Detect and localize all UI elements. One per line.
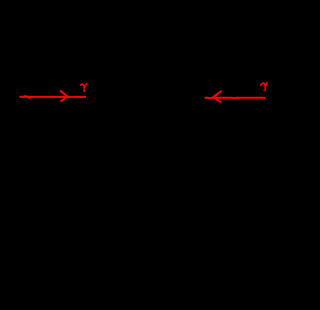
arrowhead: left gamma ray (pointing right): [60, 90, 67, 101]
wire: small ripple bumps near left end of left gamma-ray line: [24, 96, 31, 98]
arrowhead: right gamma ray (pointing left): [213, 91, 222, 103]
wire: left gamma-ray line: [19, 96, 86, 98]
label gamma left: [81, 84, 87, 92]
label gamma right: [261, 82, 267, 90]
wire: right gamma-ray line: [205, 97, 266, 99]
